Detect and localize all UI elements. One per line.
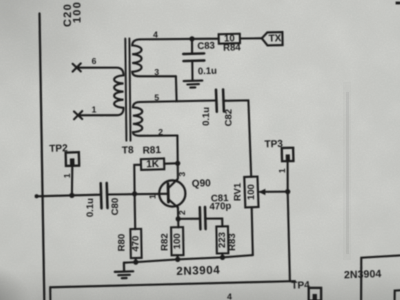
svg-text:0.1u: 0.1u [85,198,96,217]
svg-text:R80: R80 [116,234,127,251]
TX net flag [262,32,283,45]
label 2N3904 (bottom right) [344,268,382,281]
bottom-right partial testpoint box [395,290,400,300]
wire: R84 to TX flag [240,37,262,39]
transistor Q90 [159,178,211,208]
transformer lower secondary (pins 5-2) [133,102,178,136]
capacitor C81 [200,207,206,229]
wire: bottom rail across to left edge [50,281,295,300]
testpoint TP4 [291,280,321,300]
svg-text:RV1: RV1 [233,182,244,201]
wire: R83 bottom stem [221,253,223,257]
junction TP3/wiper [285,189,290,194]
wire: C81 right to R83 [206,219,223,227]
svg-text:1K: 1K [146,159,160,170]
X mark pin 1 [74,111,82,119]
svg-text:C82: C82 [224,109,235,126]
svg-text:2N3904: 2N3904 [176,265,220,279]
junction R81/collector [175,161,180,166]
svg-text:4: 4 [153,30,158,40]
label C81 [211,193,230,205]
ground symbol (left) [115,263,133,279]
wire: branch up to R81 [134,165,141,194]
resistor R80 [116,229,141,258]
paper crease shadow [343,82,351,260]
wire: pin 5 net to C82 [140,101,216,103]
junction TP2/base wire [69,193,74,198]
svg-text:R83: R83 [227,233,238,250]
X mark pin 6 [73,63,81,71]
resistor R84 [219,33,242,54]
wire: base net from border to C80 [36,195,100,197]
wire: R82 bottom stem [176,255,178,259]
junction base/R81/R80 [132,191,137,196]
stray ink mark top-right corner [396,2,400,5]
pin 2 of Q90 [177,210,187,215]
svg-text:100: 100 [172,233,183,249]
sheet border (left edge line) [40,14,45,300]
resistor R83 [216,226,238,253]
testpoint TP2 [49,143,79,166]
svg-text:6: 6 [92,56,97,66]
svg-text:5: 5 [154,92,159,102]
capacitor C80 [101,183,108,208]
capacitor C83 [183,39,204,81]
svg-text:0.1u: 0.1u [198,66,218,78]
wire: RV1 wiper [260,191,288,193]
transformer T8 core [125,38,130,140]
pin 1 of TP3 [277,168,287,173]
svg-text:R84: R84 [223,42,242,54]
svg-text:470: 470 [131,236,142,252]
svg-text:2N3904: 2N3904 [344,268,382,281]
svg-text:C83: C83 [197,40,215,52]
wire: C80 to Q90 base [107,193,167,196]
junction emitter/C81 [176,216,181,221]
svg-text:100: 100 [71,1,83,23]
pin 6 label [92,56,97,66]
pin 3 of Q90 [177,172,187,177]
svg-text:TP3: TP3 [264,139,283,151]
svg-text:C80: C80 [110,198,121,215]
svg-text:4: 4 [227,292,232,300]
svg-text:R81: R81 [142,145,161,157]
wire: pin 3 drop to pin 5 net [175,76,178,101]
resistor R82 [160,227,184,255]
wire: TP3 stem [287,161,289,191]
wire: R81 right to collector net [164,162,177,164]
value 470p of C81 [209,201,231,213]
wire: TP3 node down to bottom rail [288,192,290,282]
label 100 (cut off at top) [71,1,83,23]
value 0.1u of C82 [201,107,212,126]
wire: pin 4 net to R84 [140,38,219,41]
svg-text:TP4: TP4 [291,280,310,292]
pin 1 of TP2 [62,173,72,178]
svg-text:TP2: TP2 [49,143,68,155]
pin 2 label [158,127,163,137]
pin 4 label [153,30,158,40]
wire: RV1 bottom stem to bus [252,208,253,256]
wire: emitter down [177,208,180,228]
wire: branch down to R80 [134,194,137,229]
junction R83/ground bus [220,255,225,260]
svg-text:1: 1 [62,173,72,178]
svg-text:3: 3 [154,67,159,77]
pin 1 of Q90 [147,194,157,199]
wiper arrowhead [259,189,266,195]
junction R82/ground bus [175,257,180,262]
potentiometer RV1 [233,177,259,208]
wire: C82 right to RV1 top [224,100,251,176]
capacitor C82 [216,90,224,112]
wire: TP2 stem [71,166,73,195]
wire: R80 bottom stem [135,258,137,262]
ground symbol (under C83) [184,81,203,88]
pin 1 label [92,105,97,115]
bottom-right section box [361,255,400,300]
svg-text:T8: T8 [122,145,134,156]
junction R80/ground bus [133,260,138,265]
svg-text:1: 1 [92,105,97,115]
transformer upper secondary (pins 4-3) [132,39,176,76]
svg-text:100: 100 [246,184,257,200]
testpoint TP3 [264,139,293,161]
svg-text:1: 1 [147,194,157,199]
svg-text:0.1u: 0.1u [201,107,212,126]
resistor R81 [141,145,165,170]
svg-text:470p: 470p [209,201,231,213]
transformer primary winding (pins 6-1) [77,68,124,116]
value 0.1u of C80 [85,198,96,217]
svg-text:2: 2 [158,127,163,137]
wire: collector up to transformer pin 2 [176,136,179,179]
pin 3 label [154,67,159,77]
svg-text:1: 1 [277,168,287,173]
svg-text:Q90: Q90 [192,178,212,190]
label C83 [197,40,215,52]
label C82 [224,109,235,126]
label C20 (cut off at top) [62,3,74,27]
node on border [35,194,39,198]
svg-text:TX: TX [268,33,281,44]
pin 5 label [154,92,159,102]
ground bus wire [124,255,253,263]
wire: emitter node to C81 [178,218,200,220]
value 0.1u of C83 [198,66,218,78]
pin 4 label (section below, cut off) [227,292,232,300]
label 2N3904 (center) [176,265,220,279]
svg-text:R82: R82 [160,233,171,250]
transformer designator T8 [122,145,134,156]
label C80 [110,198,121,215]
junction C83/pin4 net [189,36,194,41]
